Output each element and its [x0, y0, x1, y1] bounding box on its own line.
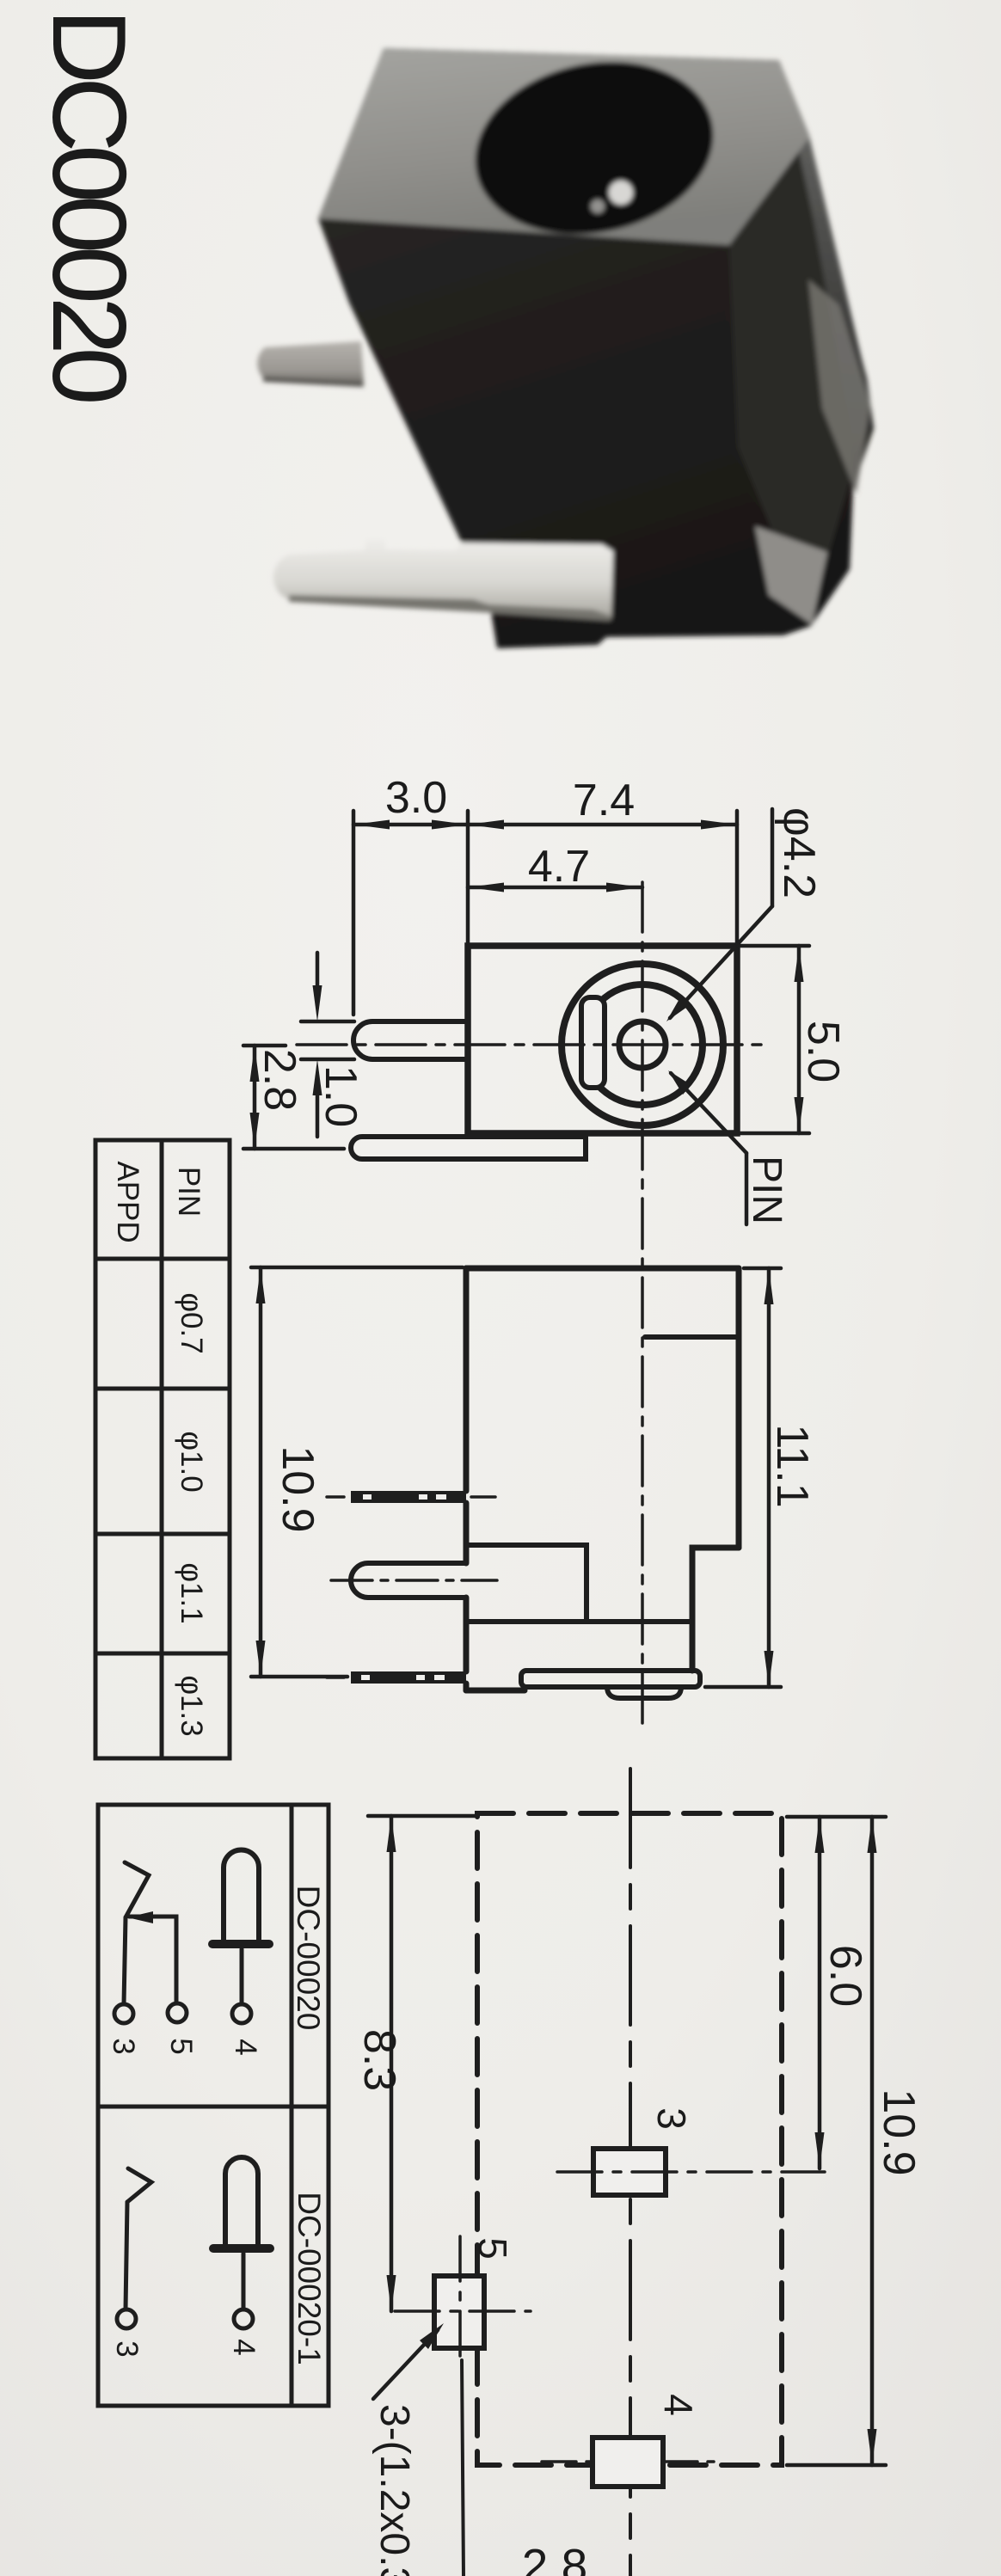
center pin circle: [619, 1021, 666, 1068]
row2 sleeve bar: [213, 2244, 270, 2253]
extension lines 5.0: [740, 944, 809, 948]
hole highlight dots: [609, 181, 633, 205]
arrow down 10.9: [256, 1641, 266, 1677]
jack right edge highlight streak: [808, 279, 870, 494]
svg-text:1.0: 1.0: [316, 1065, 365, 1127]
arrow up 10.9 pcb: [868, 1817, 877, 1853]
row1 switch line: [129, 1917, 176, 2003]
jack body right lobe (slightly lighter): [729, 142, 862, 621]
svg-text:10.9: 10.9: [874, 2088, 924, 2175]
barrel hole: [459, 40, 730, 255]
svg-text:5: 5: [164, 2038, 198, 2054]
arrow down 1.0: [313, 985, 322, 1021]
jack top face: [318, 48, 809, 245]
dim 1.0 upper shaft: [316, 953, 320, 992]
ext 1.0 bottom: [301, 1058, 354, 1062]
top pin centerline ticks: [327, 1495, 344, 1499]
svg-text:11.1: 11.1: [767, 1424, 817, 1507]
table1 border: [95, 1140, 230, 1758]
arrow down 6.0: [815, 2132, 825, 2168]
side contact tab: [581, 997, 605, 1088]
bottom pin centerline tick: [327, 1676, 344, 1679]
leader PIN landing: [745, 1153, 749, 1224]
arrow left 4.7: [468, 883, 504, 892]
flange bump: [607, 1687, 681, 1698]
arrow down 8.3: [387, 2275, 396, 2311]
svg-text:φ4.2: φ4.2: [774, 807, 824, 899]
extension line at pin tip x=411: [352, 811, 356, 1015]
table2 label column divider: [290, 1805, 294, 2406]
pad 4 centerline right: [663, 2460, 714, 2463]
top flat pin (filled): [351, 1491, 466, 1503]
arrow down 5.0: [795, 1097, 804, 1133]
jack right side facet: [779, 60, 872, 454]
leader PIN arrowhead: [668, 1070, 691, 1095]
upper metal pin: [257, 341, 364, 383]
pad 5 horizontal centerline: [395, 2309, 531, 2313]
svg-text:3-(1.2x0.3): 3-(1.2x0.3): [372, 2404, 417, 2576]
row1 sleeve U: [224, 1850, 259, 1941]
table2 border: [98, 1805, 329, 2406]
row1 switch arrowhead: [127, 1911, 153, 1923]
row1 circle 3: [114, 2004, 133, 2023]
svg-text:3: 3: [649, 2107, 694, 2130]
table1 row lines: [95, 1257, 230, 1261]
svg-text:φ1.0: φ1.0: [175, 1431, 208, 1492]
vertical centerline through views: [641, 882, 644, 1731]
row1 pin3 chevron: [125, 1862, 149, 1917]
ext 11.1 top: [744, 1267, 781, 1271]
row2 circle 3: [117, 2309, 136, 2328]
pad 4: [593, 2438, 663, 2487]
svg-text:φ1.3: φ1.3: [175, 1675, 208, 1736]
svg-text:PIN: PIN: [172, 1167, 206, 1217]
arrow right 3.0: [432, 820, 468, 830]
arrow right 4.7: [606, 883, 642, 892]
front view body rectangle: [468, 946, 737, 1133]
pad 3: [593, 2149, 666, 2195]
dim line 8.3: [390, 1816, 394, 2311]
row1 sleeve bar: [212, 1940, 269, 1948]
internal horizontal line: [466, 1619, 692, 1624]
row1 pin4 line: [240, 1949, 244, 2004]
horizontal centerline: [297, 1043, 768, 1046]
table1 column divider: [160, 1140, 164, 1758]
arrow up 10.9: [256, 1267, 266, 1303]
barrel middle circle: [582, 984, 703, 1105]
dim line 6.0: [818, 1817, 822, 2168]
jack lower-right facet: [755, 526, 827, 624]
svg-text:DC00020: DC00020: [31, 9, 148, 402]
dashed outline rect: [477, 1813, 782, 2465]
arrow up 2.8: [250, 1046, 260, 1082]
leader phi4.2 diagonal: [670, 906, 772, 1018]
svg-text:5: 5: [470, 2237, 515, 2260]
row2 sleeve U: [225, 2157, 258, 2244]
svg-text:6.0: 6.0: [820, 1945, 870, 2007]
svg-text:4: 4: [227, 2339, 261, 2355]
svg-text:PIN: PIN: [744, 1156, 789, 1224]
protruding pin (left): [353, 1021, 468, 1059]
vertical centerline pcb: [629, 1769, 632, 2576]
arrow down 10.9 pcb: [868, 2429, 877, 2465]
ext 10.9 top: [251, 1266, 463, 1270]
arrow up 5.0: [795, 946, 804, 982]
svg-text:4: 4: [229, 2039, 262, 2055]
svg-text:DC-00020-1: DC-00020-1: [292, 2192, 327, 2365]
svg-text:4.7: 4.7: [528, 842, 590, 892]
arrow up 1.0: [313, 1059, 322, 1095]
dim line 10.9: [259, 1267, 263, 1677]
row2 pin3 chevron: [127, 2168, 151, 2202]
row2 pin4 line: [242, 2254, 246, 2309]
lower metal pin: [273, 539, 613, 618]
outline right edge: [736, 1268, 742, 1548]
dimension line 3.0 / 7.4: [353, 823, 737, 827]
middle pin centerline: [331, 1579, 497, 1582]
middle round pin: [351, 1563, 466, 1598]
leader phi4.2 arrowhead: [666, 997, 690, 1021]
svg-text:7.4: 7.4: [573, 776, 635, 825]
svg-text:φ1.1: φ1.1: [175, 1562, 208, 1623]
svg-text:3: 3: [107, 2038, 140, 2054]
svg-text:3.0: 3.0: [385, 773, 447, 823]
svg-text:3: 3: [110, 2340, 144, 2357]
mounting flange strip: [351, 1137, 586, 1159]
internal line barrel end: [645, 1334, 739, 1340]
shared ext top right: [787, 1815, 886, 1819]
internal step lines: [466, 1545, 586, 1620]
arrow up 11.1: [765, 1268, 774, 1304]
dimension line 4.7: [468, 886, 642, 890]
leader phi4.2 landing: [771, 809, 775, 906]
pad 3 centerline: [557, 2170, 825, 2174]
ext 10.9 bottom: [251, 1675, 347, 1679]
pad 5 vertical centerline: [458, 2236, 462, 2360]
dim line 11.1: [767, 1268, 771, 1687]
svg-text:8.3: 8.3: [354, 2029, 404, 2091]
row1 pin3 contact line: [124, 1917, 126, 2004]
row1 circle 4: [232, 2004, 251, 2023]
outline left edge segments: [464, 1268, 470, 1491]
arrow right 7.4: [701, 820, 737, 830]
dimension line 5.0: [797, 946, 801, 1133]
pad 5 centerline extension (2.8 ext): [462, 2360, 464, 2576]
outline step: [692, 1548, 739, 1671]
ext bottom right: [787, 2463, 886, 2468]
dim 1.0 lower shaft: [316, 1089, 320, 1137]
barrel outer circle: [562, 964, 723, 1125]
arrow up 6.0: [815, 1817, 825, 1853]
bottom flat pin (filled): [351, 1671, 466, 1684]
row1 circle 5: [168, 2003, 187, 2022]
arrow left 3.0: [353, 820, 390, 830]
arrow down 2.8: [250, 1113, 260, 1149]
dim line 10.9 pcb: [870, 1817, 875, 2465]
outline bottom-left edge: [466, 1688, 525, 1694]
ext 1.0 top: [301, 1020, 354, 1024]
arrow up 8.3: [387, 1816, 396, 1852]
table2 row divider: [98, 2105, 329, 2109]
leader PIN diagonal: [671, 1073, 746, 1153]
svg-text:φ0.7: φ0.7: [175, 1292, 208, 1353]
ext 2.8 top: [243, 1044, 286, 1048]
outline top edge: [466, 1266, 739, 1272]
dim 2.8 line: [253, 1046, 257, 1149]
ext 2.8 bottom: [243, 1147, 344, 1151]
svg-text:2.8: 2.8: [255, 1049, 304, 1111]
arrow left 7.4: [468, 820, 504, 830]
leader 3-(1.2x0.3): [373, 2330, 438, 2399]
photo of DC jack: [257, 40, 874, 648]
svg-text:DC-00020: DC-00020: [291, 1886, 326, 2031]
mounting flange side: [521, 1671, 700, 1687]
svg-text:10.9: 10.9: [273, 1445, 322, 1532]
extension line x=544 above box: [466, 811, 470, 946]
row2 circle 4: [234, 2309, 253, 2328]
jack body (black mass): [318, 48, 874, 648]
svg-text:2.8: 2.8: [522, 2539, 587, 2576]
row2 pin3 line: [126, 2202, 127, 2309]
svg-text:5.0: 5.0: [798, 1021, 848, 1083]
arrow down 11.1: [765, 1651, 774, 1687]
extension line x=857 above box: [735, 811, 740, 946]
svg-text:APPD: APPD: [111, 1161, 144, 1242]
pad 5: [434, 2276, 484, 2348]
ext 8.3 top: [368, 1814, 475, 1819]
pad 4 centerline left: [542, 2460, 593, 2463]
leader arrowhead: [420, 2323, 444, 2349]
ext 11.1 bottom: [705, 1685, 781, 1690]
svg-text:4: 4: [656, 2394, 701, 2416]
